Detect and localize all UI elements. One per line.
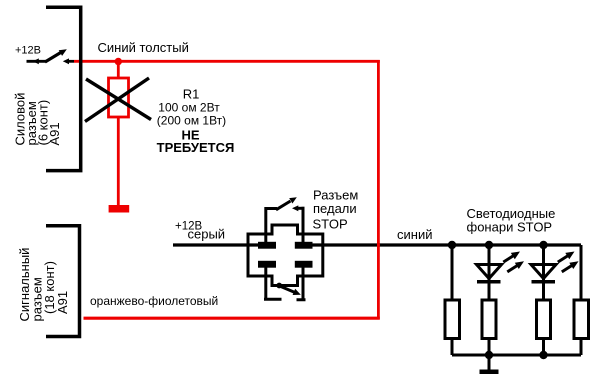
svg-text:синий: синий <box>397 227 432 242</box>
svg-text:R1: R1 <box>183 87 200 102</box>
svg-text:серый: серый <box>188 227 226 242</box>
svg-text:+12В: +12В <box>15 45 41 57</box>
svg-text:STOP: STOP <box>313 216 348 231</box>
svg-text:Синий толстый: Синий толстый <box>98 40 189 55</box>
svg-text:оранжево-фиолетовый: оранжево-фиолетовый <box>90 294 218 308</box>
svg-text:100 ом 2Вт: 100 ом 2Вт <box>158 101 220 115</box>
svg-text:фонари STOP: фонари STOP <box>467 219 553 234</box>
svg-text:ТРЕБУЕТСЯ: ТРЕБУЕТСЯ <box>157 140 235 155</box>
svg-text:педали: педали <box>313 201 357 216</box>
svg-text:(200 ом 1Вт): (200 ом 1Вт) <box>157 114 226 128</box>
